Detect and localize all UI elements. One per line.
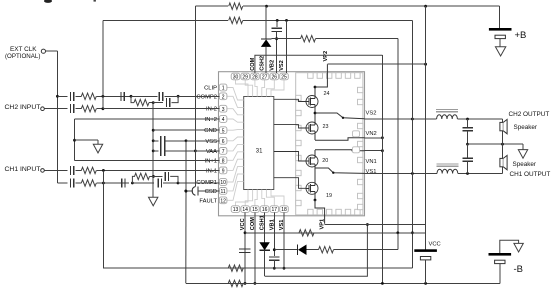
- svg-text:+B: +B: [515, 30, 527, 41]
- svg-text:30: 30: [233, 74, 239, 80]
- svg-text:11: 11: [220, 189, 225, 195]
- svg-text:23: 23: [323, 124, 329, 130]
- svg-text:GND: GND: [204, 128, 217, 134]
- svg-text:VSS: VSS: [205, 139, 217, 145]
- svg-text:19: 19: [326, 193, 332, 199]
- svg-text:VN1: VN1: [366, 159, 377, 165]
- svg-text:CSH2: CSH2: [260, 56, 266, 71]
- svg-text:EXT CLK: EXT CLK: [10, 46, 37, 53]
- svg-text:18: 18: [281, 207, 287, 213]
- svg-text:25: 25: [281, 74, 287, 80]
- svg-text:IN-1: IN-1: [206, 168, 217, 174]
- svg-text:28: 28: [252, 74, 258, 80]
- svg-text:27: 27: [262, 74, 268, 80]
- svg-text:CH1 OUTPUT: CH1 OUTPUT: [510, 171, 551, 178]
- svg-text:VCC: VCC: [429, 241, 441, 247]
- svg-text:(OPTIONAL): (OPTIONAL): [5, 53, 40, 60]
- svg-text:1: 1: [222, 86, 225, 92]
- svg-text:2: 2: [222, 94, 225, 100]
- svg-text:14: 14: [242, 207, 248, 213]
- svg-text:10: 10: [220, 180, 226, 186]
- svg-text:FAULT: FAULT: [199, 198, 217, 204]
- svg-text:29: 29: [242, 74, 248, 80]
- svg-text:VN2: VN2: [366, 131, 377, 137]
- svg-text:17: 17: [272, 207, 278, 213]
- svg-text:-B: -B: [514, 264, 524, 275]
- svg-text:Speaker: Speaker: [513, 161, 536, 168]
- svg-text:IN+1: IN+1: [205, 158, 217, 164]
- svg-text:IN-2: IN-2: [206, 107, 217, 113]
- svg-text:VS2: VS2: [366, 111, 377, 117]
- svg-text:8: 8: [222, 158, 225, 164]
- svg-text:24: 24: [324, 91, 330, 97]
- svg-text:5: 5: [222, 128, 225, 134]
- svg-text:4: 4: [222, 117, 225, 123]
- svg-text:VS1: VS1: [366, 169, 377, 175]
- svg-text:Speaker: Speaker: [514, 124, 537, 131]
- svg-text:VB2: VB2: [269, 60, 275, 71]
- svg-text:CLIP: CLIP: [204, 86, 217, 92]
- svg-text:15: 15: [252, 207, 258, 213]
- svg-text:16: 16: [262, 207, 268, 213]
- svg-text:7: 7: [222, 149, 225, 155]
- svg-text:3: 3: [222, 107, 225, 113]
- svg-text:CH1 INPUT: CH1 INPUT: [5, 166, 41, 173]
- svg-text:CH2 OUTPUT: CH2 OUTPUT: [509, 111, 550, 118]
- svg-text:COMP2: COMP2: [196, 94, 217, 100]
- svg-text:20: 20: [322, 158, 328, 164]
- svg-text:13: 13: [233, 207, 239, 213]
- svg-text:26: 26: [272, 74, 278, 80]
- svg-text:CSD: CSD: [205, 189, 217, 195]
- svg-text:VS2: VS2: [279, 60, 285, 71]
- svg-text:31: 31: [256, 149, 263, 155]
- svg-text:6: 6: [222, 139, 225, 145]
- svg-text:VAA: VAA: [206, 149, 217, 155]
- svg-text:12: 12: [220, 198, 226, 204]
- svg-text:CH2 INPUT: CH2 INPUT: [5, 104, 41, 111]
- svg-text:VP2: VP2: [323, 51, 329, 62]
- svg-text:IN+2: IN+2: [205, 117, 217, 123]
- svg-text:9: 9: [222, 169, 225, 175]
